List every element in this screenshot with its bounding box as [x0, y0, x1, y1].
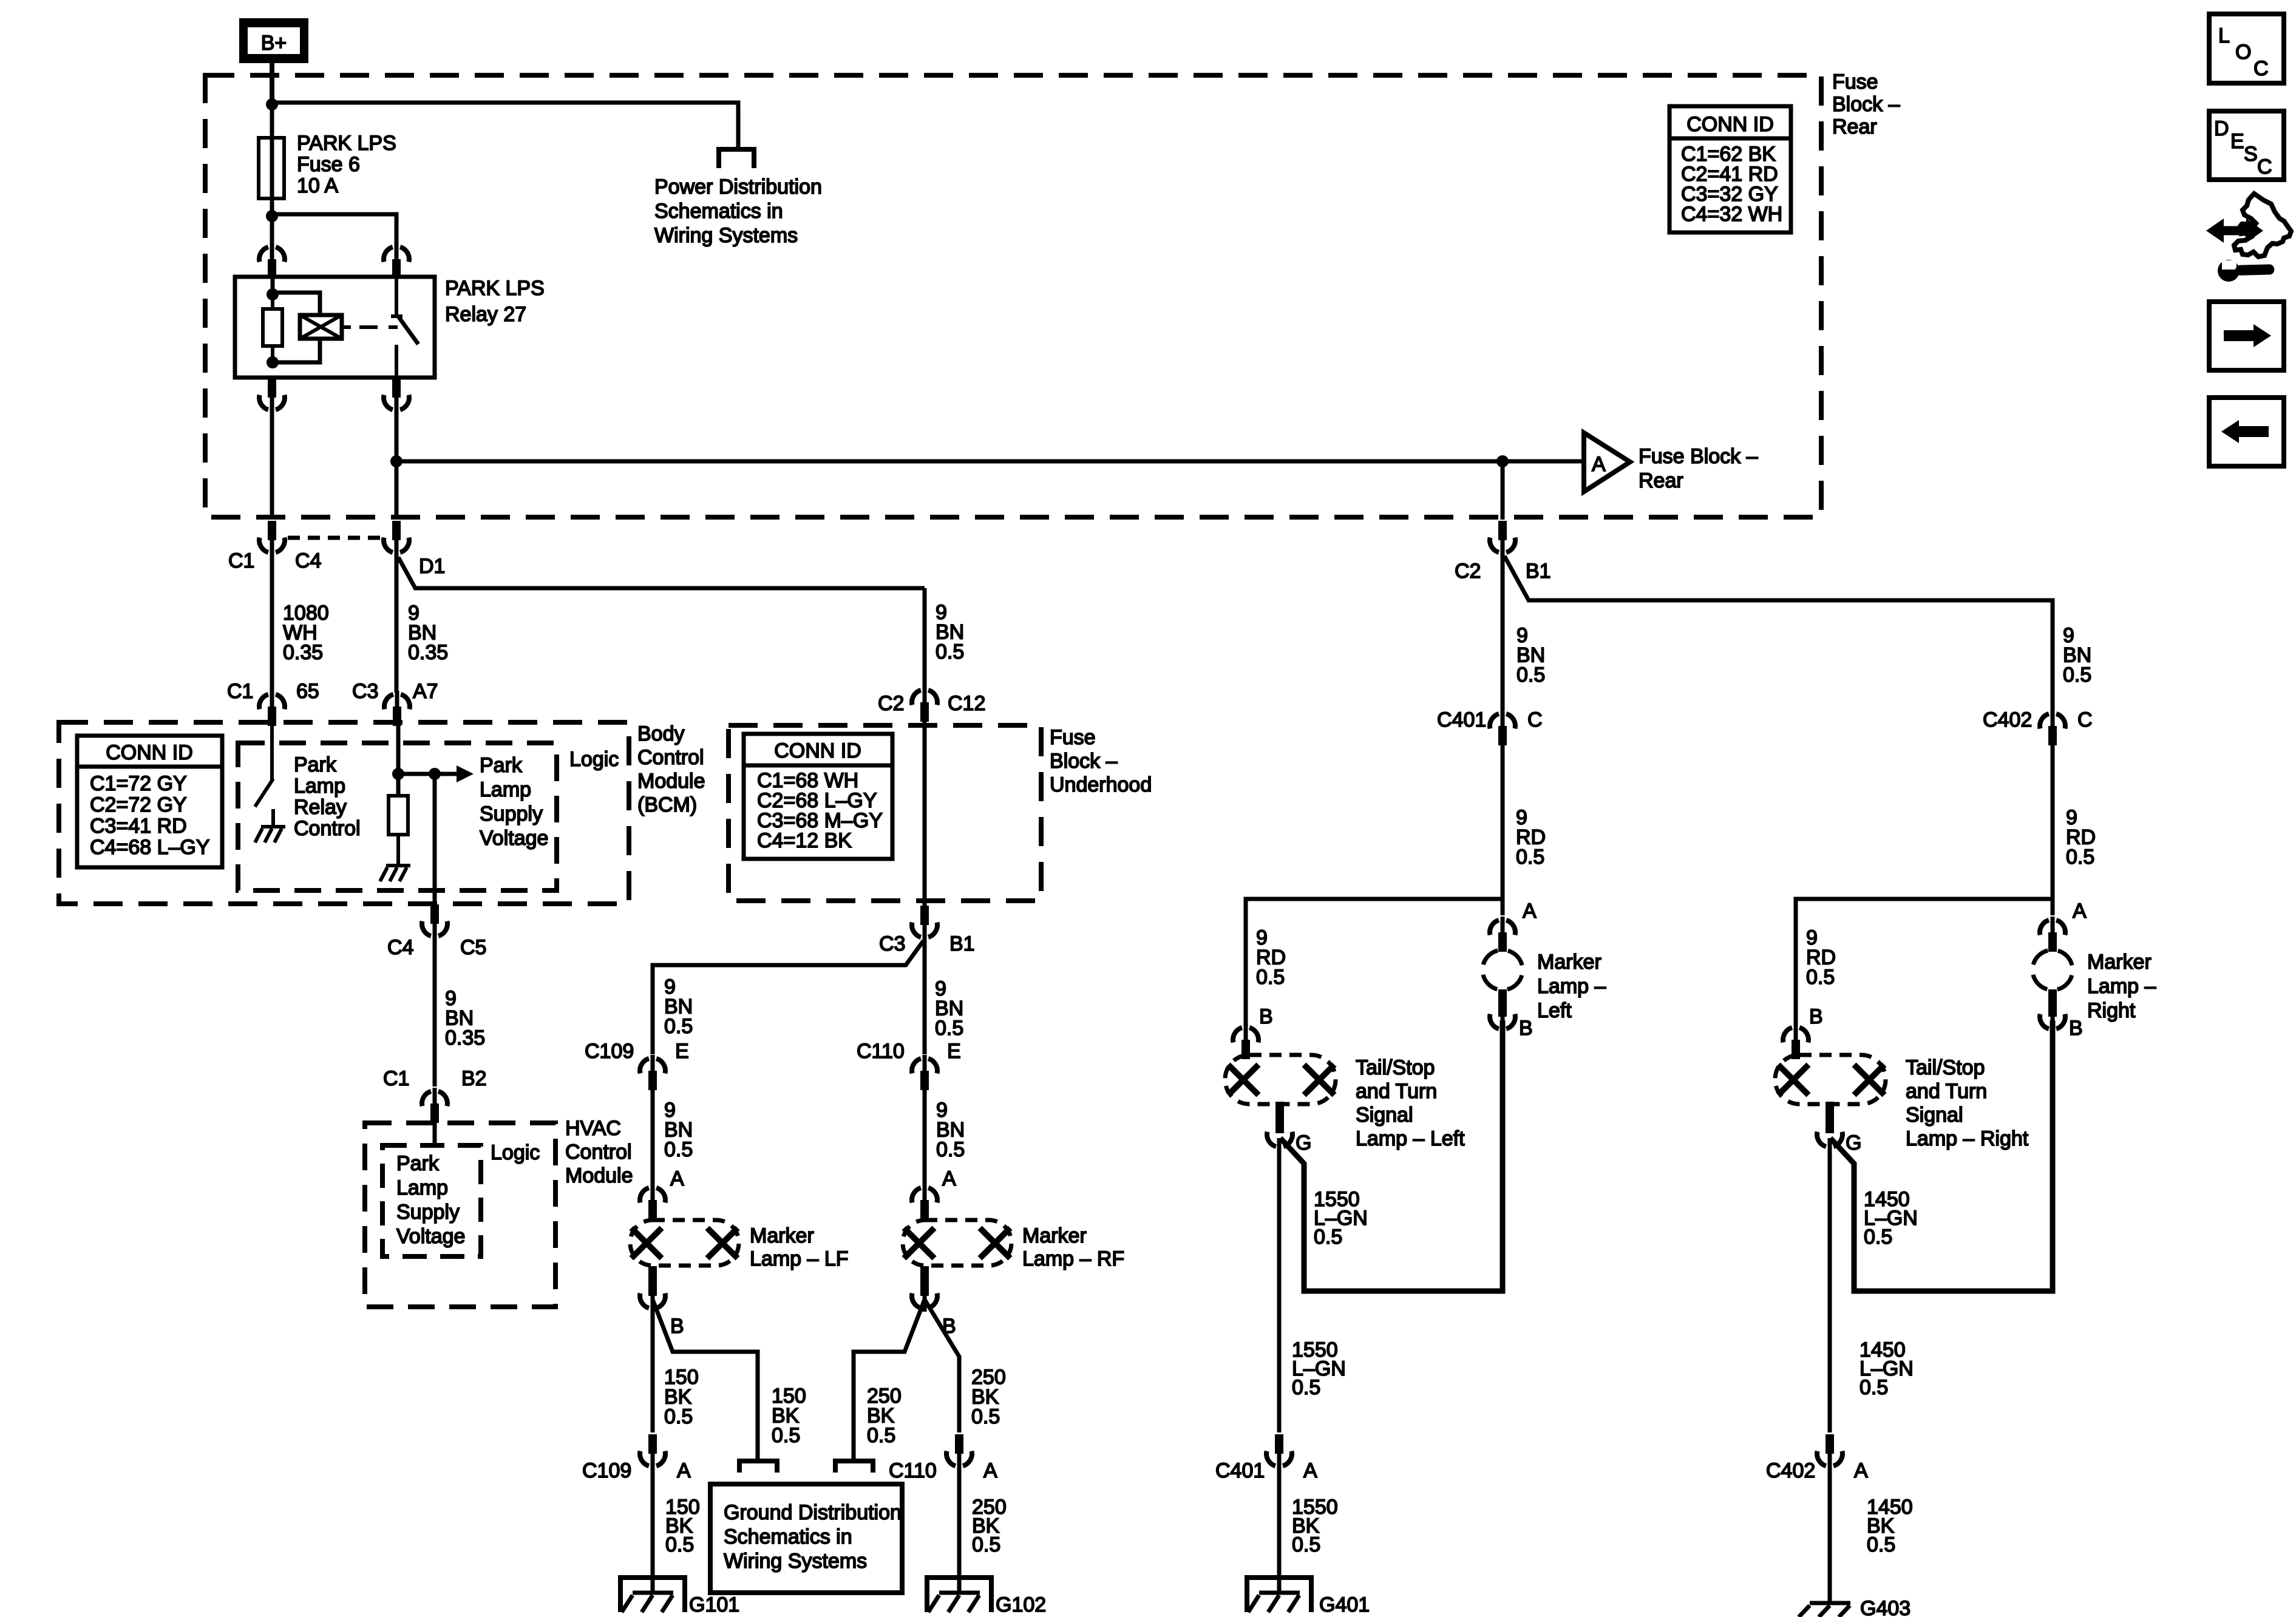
connector marker lamp RF terminal B [912, 1266, 956, 1338]
wire to supply voltage arrow [398, 772, 458, 776]
svg-text:L: L [2218, 24, 2230, 47]
relay switch contact upper [391, 279, 402, 316]
svg-text:C12: C12 [948, 692, 985, 715]
connector C2/B1 [1455, 521, 1551, 583]
fuse block rear CONN ID box [1669, 106, 1791, 232]
svg-text:B: B [670, 1315, 684, 1338]
svg-text:Control: Control [637, 746, 704, 769]
svg-text:0.5: 0.5 [1517, 663, 1545, 686]
icon LOC [2209, 14, 2284, 83]
svg-text:0.5: 0.5 [867, 1424, 895, 1447]
svg-text:Fuse: Fuse [1832, 70, 1878, 93]
node relay coil top [267, 288, 279, 300]
svg-text:Left: Left [1537, 999, 1572, 1022]
svg-text:C3=41 RD: C3=41 RD [90, 815, 187, 838]
svg-text:0.35: 0.35 [408, 641, 448, 664]
svg-text:Logic: Logic [491, 1141, 540, 1164]
wire 9 RD 0.5 from C402 [2053, 728, 2096, 915]
body control module dashed box [59, 722, 629, 904]
ground G101 [620, 1578, 739, 1616]
svg-text:Tail/Stop: Tail/Stop [1906, 1056, 1985, 1079]
connector C401/A [1215, 1434, 1317, 1482]
connector C4/C5 [387, 904, 486, 959]
relay switch blade [398, 316, 418, 344]
fuse block underhood dashed box [729, 725, 1041, 901]
svg-text:0.5: 0.5 [1314, 1225, 1342, 1249]
svg-text:C2: C2 [1455, 560, 1481, 583]
svg-text:C4=32 WH: C4=32 WH [1681, 203, 1782, 226]
wire marker rear ground loop [1280, 1020, 1503, 1291]
wire 1450 BK 0.5 to ground [1830, 1457, 1913, 1601]
svg-text:C110: C110 [857, 1040, 905, 1063]
connector marker lamp terminal B rear [2040, 989, 2083, 1040]
svg-text:C110: C110 [889, 1459, 937, 1482]
svg-text:Voltage: Voltage [396, 1225, 465, 1248]
connector tail lamp terminal B [1783, 1005, 1823, 1059]
svg-text:Wiring Systems: Wiring Systems [724, 1550, 867, 1573]
wire relay to junction [395, 401, 399, 520]
wire D1 branch to underhood feed [398, 557, 925, 588]
svg-text:A: A [942, 1167, 956, 1190]
connector C402/C [1983, 708, 2093, 745]
connector stub to power distribution schematics [719, 149, 754, 168]
fuse block underhood label [1050, 726, 1152, 796]
svg-text:Relay 27: Relay 27 [445, 303, 526, 326]
svg-text:C402: C402 [1983, 708, 2032, 731]
wire label 250 BK 0.5 right [971, 1366, 1006, 1428]
svg-text:0.5: 0.5 [1860, 1376, 1888, 1399]
svg-text:0.35: 0.35 [445, 1026, 485, 1049]
connector D1 [384, 521, 445, 578]
svg-text:S: S [2244, 143, 2258, 166]
svg-text:0.5: 0.5 [2063, 663, 2091, 686]
svg-text:G: G [1846, 1131, 1861, 1154]
relay 27 PARK LPS box [235, 277, 435, 378]
wire label 150 BK 0.5 left [664, 1366, 699, 1428]
svg-text:Lamp – Right: Lamp – Right [1906, 1127, 2029, 1150]
svg-text:0.5: 0.5 [971, 1405, 1000, 1428]
wire 1550 BK 0.5 to ground [1279, 1457, 1338, 1591]
park lamp relay control label [294, 753, 361, 840]
svg-text:(BCM): (BCM) [637, 793, 697, 816]
connector C110/E [857, 1040, 961, 1090]
power distribution note [654, 175, 822, 247]
fuse block rear dashed box [205, 75, 1821, 517]
connector marker lamp terminal A rear [2040, 900, 2087, 952]
svg-text:C1: C1 [383, 1067, 409, 1090]
svg-text:C4: C4 [295, 549, 321, 572]
svg-text:and Turn: and Turn [1906, 1080, 1987, 1103]
wire into HVAC logic [433, 1123, 437, 1148]
svg-text:Lamp –: Lamp – [2087, 975, 2156, 998]
svg-text:E: E [675, 1040, 689, 1063]
connector tail lamp terminal B [1233, 1005, 1273, 1059]
svg-text:B: B [1259, 1005, 1273, 1028]
svg-text:0.5: 0.5 [664, 1138, 693, 1161]
park lamp supply voltage arrow [457, 765, 474, 782]
fuse 6 PARK LPS 10A [259, 138, 284, 214]
wire 1080 WH 0.35 [272, 544, 329, 693]
svg-text:Wiring Systems: Wiring Systems [654, 224, 798, 247]
dashed link C4 to D1 [288, 536, 381, 540]
wire switched feed to fuse block rear terminal A [396, 459, 1503, 464]
relay 27 label [445, 277, 545, 326]
svg-text:C4=12 BK: C4=12 BK [757, 829, 852, 852]
wire tail lamp ground down [1279, 1138, 1346, 1432]
fuse 6 label [297, 132, 396, 197]
bracket to ground distribution left [739, 1461, 777, 1473]
svg-text:B: B [2069, 1017, 2083, 1040]
icon next arrow [2209, 302, 2284, 370]
tail/stop lamp label [1356, 1056, 1465, 1150]
wire C3/B1 split to C109 [653, 941, 923, 1054]
svg-text:Park: Park [294, 753, 337, 776]
ground distribution box [710, 1484, 902, 1593]
wire label 1450 L-GN 0.5 upper [1864, 1188, 1918, 1249]
svg-text:CONN ID: CONN ID [1686, 113, 1774, 136]
svg-text:G401: G401 [1319, 1593, 1370, 1616]
svg-text:Signal: Signal [1356, 1103, 1413, 1127]
svg-text:C5: C5 [460, 936, 486, 959]
tail/stop and turn signal lamp housing [1775, 1055, 1886, 1104]
svg-text:Power Distribution: Power Distribution [654, 175, 822, 198]
svg-text:C1: C1 [228, 549, 254, 572]
off-page reference label [1639, 445, 1758, 492]
svg-text:Signal: Signal [1906, 1103, 1963, 1127]
connector marker lamp terminal B rear [1490, 989, 1533, 1040]
svg-text:A: A [983, 1459, 997, 1482]
ground G403 [1799, 1597, 1911, 1617]
svg-text:A: A [670, 1167, 684, 1190]
svg-text:Fuse Block –: Fuse Block – [1639, 445, 1758, 468]
marker lamp RF label [1022, 1224, 1124, 1270]
ground G102 [927, 1578, 1046, 1616]
park lamp relay control switch [255, 726, 273, 807]
wire label 250 BK 0.5 branch [867, 1385, 902, 1447]
svg-text:C401: C401 [1215, 1459, 1265, 1482]
node at terminal A drop [1496, 455, 1509, 467]
svg-text:B: B [1519, 1017, 1533, 1040]
svg-text:G403: G403 [1860, 1597, 1911, 1617]
svg-text:B+: B+ [261, 32, 287, 55]
svg-text:C401: C401 [1437, 708, 1486, 731]
wire 150 BK 0.5 to ground [653, 1457, 700, 1591]
node switched feed junction [390, 455, 402, 467]
svg-text:CONN ID: CONN ID [774, 739, 861, 762]
connector C110/A [889, 1434, 997, 1482]
svg-text:Fuse 6: Fuse 6 [297, 153, 360, 176]
marker lamp LF housing [630, 1220, 739, 1266]
svg-text:G101: G101 [689, 1593, 739, 1616]
park lamp supply voltage label [480, 754, 548, 850]
svg-text:C402: C402 [1766, 1459, 1815, 1482]
svg-text:PARK LPS: PARK LPS [445, 277, 545, 300]
connector C3/A7 into BCM [352, 680, 438, 726]
svg-text:HVAC: HVAC [565, 1117, 621, 1140]
svg-text:0.5: 0.5 [972, 1533, 1000, 1556]
svg-text:A: A [677, 1459, 691, 1482]
svg-text:CONN ID: CONN ID [106, 741, 193, 764]
connector C402/A [1766, 1434, 1868, 1482]
icon back arrow [2209, 398, 2284, 466]
BCM CONN ID box [77, 736, 222, 867]
wire label 1550 L-GN 0.5 upper [1314, 1188, 1368, 1249]
wire relay coil top [273, 279, 320, 315]
tail/stop lamp bulbs [1228, 1065, 1334, 1095]
svg-text:Control: Control [294, 817, 361, 840]
BCM resistor ground [380, 835, 410, 881]
svg-text:Right: Right [2087, 999, 2136, 1022]
wire branch to tail lamp [1796, 899, 2053, 1025]
svg-text:0.5: 0.5 [665, 1533, 694, 1556]
svg-text:E: E [2230, 130, 2244, 153]
connector C401/C [1437, 708, 1543, 745]
node BCM supply voltage tap [392, 768, 404, 780]
connector marker lamp LF terminal B [640, 1266, 684, 1338]
svg-text:Lamp: Lamp [396, 1176, 448, 1199]
connector C1/65 into BCM [227, 680, 319, 726]
marker lamp rear label [1537, 951, 1606, 1022]
svg-text:C3: C3 [352, 680, 378, 703]
wire 9 BN 0.5 C110 to lamp [925, 1074, 965, 1184]
wire D1 down 9 BN 0.35 [396, 544, 448, 693]
svg-text:0.5: 0.5 [1864, 1225, 1892, 1249]
connector C2/C12 into fuse block underhood [878, 686, 985, 722]
wire fuse to relay switch feed [272, 214, 396, 246]
fuse block rear title [1832, 70, 1900, 138]
wire 9 BN 0.5 to C401 [1503, 544, 1545, 712]
connector marker lamp RF terminal A [912, 1167, 956, 1219]
svg-text:C: C [2077, 708, 2093, 731]
wire terminal drop to C2 connector [1501, 461, 1505, 520]
svg-text:C2=72 GY: C2=72 GY [90, 793, 187, 816]
wire label 9 BN 0.5 right [2063, 624, 2091, 686]
svg-text:Ground Distribution: Ground Distribution [724, 1501, 902, 1524]
svg-text:0.5: 0.5 [1867, 1533, 1895, 1556]
svg-text:Rear: Rear [1639, 469, 1683, 492]
svg-text:Fuse: Fuse [1050, 726, 1096, 749]
connector C1/C4 [228, 521, 321, 572]
marker lamp rear dashed bulb [1483, 950, 1523, 990]
tail/stop lamp label [1906, 1056, 2029, 1150]
wire BCM resistor feed [396, 726, 401, 796]
svg-text:Module: Module [637, 770, 705, 793]
HVAC control module dashed box [365, 1123, 555, 1307]
marker lamp rear dashed bulb [2033, 950, 2073, 990]
svg-text:Rear: Rear [1832, 115, 1877, 138]
svg-text:0.5: 0.5 [772, 1424, 800, 1447]
relay internal resistor [263, 300, 282, 358]
svg-text:0.35: 0.35 [283, 641, 323, 664]
svg-text:Block –: Block – [1050, 750, 1118, 773]
svg-text:C4: C4 [387, 936, 413, 959]
svg-text:0.5: 0.5 [664, 1405, 693, 1428]
node below fuse 6 [266, 210, 278, 222]
wire relay to C1 connector [270, 401, 274, 520]
svg-text:Supply: Supply [396, 1201, 460, 1224]
svg-text:0.5: 0.5 [1256, 966, 1285, 989]
relay coil winding symbol [300, 315, 351, 339]
HVAC logic dashed box [382, 1145, 481, 1256]
connector C1/B2 into HVAC [383, 1067, 487, 1123]
svg-text:B: B [1809, 1005, 1823, 1028]
wire B+ junction to fuse 6 [270, 104, 274, 140]
svg-text:0.5: 0.5 [2066, 846, 2094, 869]
svg-text:Lamp – LF: Lamp – LF [750, 1247, 849, 1270]
HVAC logic label [491, 1141, 540, 1164]
svg-text:A: A [1854, 1459, 1868, 1482]
svg-text:Lamp: Lamp [294, 775, 345, 798]
svg-text:D1: D1 [419, 555, 445, 578]
wire junction to off-page triangle [1503, 459, 1581, 464]
svg-text:0.5: 0.5 [1806, 966, 1835, 989]
svg-text:Park: Park [396, 1152, 440, 1175]
bracket to ground distribution right [835, 1461, 873, 1473]
svg-text:0.5: 0.5 [1292, 1533, 1320, 1556]
svg-text:PARK LPS: PARK LPS [297, 132, 396, 155]
BCM logic dashed box [238, 743, 557, 890]
node relay coil bottom [267, 356, 279, 368]
wire 250 BK 0.5 to ground [959, 1457, 1007, 1591]
off-page reference A fuse block rear [1584, 433, 1630, 492]
connector marker lamp terminal A rear [1490, 900, 1537, 952]
wire marker rear ground loop [1830, 1020, 2053, 1291]
wire 9 BN 0.5 C109 to lamp [653, 1074, 693, 1184]
svg-text:Voltage: Voltage [480, 827, 548, 850]
svg-text:0.5: 0.5 [664, 1015, 693, 1038]
icon DESC [2209, 111, 2284, 180]
svg-text:Supply: Supply [480, 802, 543, 825]
wire fuse to relay coil feed [270, 216, 274, 246]
wire marker LF ground branch [653, 1300, 758, 1459]
svg-text:Lamp –: Lamp – [1537, 975, 1606, 998]
power symbol B+ [239, 18, 308, 63]
wire through fuse block underhood [923, 722, 927, 906]
wire 9 RD 0.5 from C401 [1503, 728, 1546, 915]
svg-text:Lamp: Lamp [480, 778, 531, 801]
wire to power distribution [272, 103, 738, 149]
svg-text:C: C [2257, 155, 2272, 178]
svg-text:A: A [2073, 900, 2087, 923]
connector relay pin bottom-right [384, 378, 409, 413]
svg-text:Body: Body [637, 722, 685, 745]
connector marker lamp LF terminal A [640, 1167, 684, 1219]
svg-text:0.5: 0.5 [935, 1017, 963, 1040]
svg-text:G102: G102 [996, 1593, 1046, 1616]
marker lamp LF label [750, 1224, 849, 1270]
node BCM supply branch [429, 768, 441, 780]
svg-text:Control: Control [565, 1141, 632, 1164]
tail/stop and turn signal lamp housing [1225, 1055, 1336, 1104]
svg-text:C3: C3 [879, 932, 905, 955]
svg-text:Module: Module [565, 1164, 633, 1187]
svg-text:Park: Park [480, 754, 523, 777]
svg-text:A: A [1523, 900, 1537, 923]
svg-text:Lamp – Left: Lamp – Left [1356, 1127, 1465, 1150]
wire marker RF ground branch [854, 1300, 925, 1459]
wire 9 BN 0.35 to HVAC [435, 927, 485, 1086]
connector C109/A [582, 1434, 691, 1482]
svg-text:B1: B1 [1526, 560, 1551, 583]
wire relay coil bottom [273, 339, 320, 362]
svg-text:C4=68 L–GY: C4=68 L–GY [90, 836, 210, 859]
ground G401 [1247, 1578, 1370, 1616]
marker lamp LF bulbs [631, 1228, 738, 1258]
svg-text:Marker: Marker [750, 1224, 814, 1247]
svg-text:0.5: 0.5 [936, 640, 964, 663]
svg-text:Block –: Block – [1832, 93, 1900, 116]
svg-text:10 A: 10 A [297, 174, 338, 197]
relay linkage dashed [359, 325, 398, 329]
wire 9 BN 0.5 into fuse block underhood [925, 588, 964, 690]
marker lamp rear label [2087, 951, 2156, 1022]
svg-text:Marker: Marker [1537, 951, 1601, 974]
svg-text:C1=72 GY: C1=72 GY [90, 772, 187, 795]
BCM pull-down resistor [389, 796, 408, 835]
wire B+ stub into fuse block [270, 62, 274, 102]
svg-text:Tail/Stop: Tail/Stop [1356, 1056, 1435, 1079]
connector relay pin 30 top-left [259, 243, 285, 279]
svg-text:C109: C109 [585, 1040, 634, 1063]
svg-text:Logic: Logic [569, 748, 619, 771]
icon adjust (hand with wrench) [2206, 194, 2291, 282]
svg-text:Lamp – RF: Lamp – RF [1022, 1247, 1124, 1270]
svg-text:Schematics in: Schematics in [654, 200, 783, 223]
svg-text:0.5: 0.5 [1292, 1376, 1320, 1399]
svg-text:Marker: Marker [1022, 1224, 1087, 1247]
marker lamp RF bulbs [904, 1228, 1010, 1258]
svg-text:and Turn: and Turn [1356, 1080, 1437, 1103]
wire tail lamp ground down [1830, 1138, 1914, 1432]
svg-text:0.5: 0.5 [1516, 846, 1544, 869]
node B+ junction [266, 98, 278, 110]
relay switch contact lower [395, 345, 398, 376]
svg-text:A7: A7 [413, 680, 438, 703]
connector relay pin top-right [384, 243, 409, 279]
wire BCM supply output [433, 774, 437, 904]
park lamp relay control ground [255, 809, 285, 842]
HVAC park lamp supply voltage label [396, 1152, 465, 1248]
svg-text:C109: C109 [582, 1459, 631, 1482]
svg-text:O: O [2235, 41, 2251, 64]
svg-text:E: E [947, 1040, 961, 1063]
svg-text:A: A [1303, 1459, 1317, 1482]
svg-text:Relay: Relay [294, 796, 347, 819]
svg-text:B2: B2 [461, 1067, 487, 1090]
connector C109/E [585, 1040, 689, 1090]
connector C3/B1 out of fuse block underhood [879, 906, 975, 955]
connector tail lamp terminal G [1267, 1102, 1311, 1154]
wire B1 branch to right body harness [1504, 556, 2053, 712]
wire C3/B1 down to C110 [925, 929, 963, 1054]
connector tail lamp terminal G [1817, 1102, 1861, 1154]
wire marker LF ground straight [651, 1300, 655, 1432]
svg-text:C1: C1 [227, 680, 253, 703]
svg-text:Schematics in: Schematics in [724, 1525, 852, 1548]
svg-text:65: 65 [296, 680, 319, 703]
svg-text:0.5: 0.5 [936, 1138, 965, 1161]
svg-text:D: D [2214, 117, 2229, 140]
wire marker RF ground to C110 A [925, 1300, 959, 1432]
svg-text:C2: C2 [878, 692, 904, 715]
BCM label [637, 722, 705, 816]
svg-text:G: G [1296, 1131, 1311, 1154]
marker lamp RF housing [903, 1220, 1011, 1266]
BCM logic label [569, 748, 619, 771]
connector relay pin bottom-left [259, 378, 285, 413]
wire label 150 BK 0.5 branch [772, 1385, 806, 1447]
wire branch to tail lamp [1246, 899, 1503, 1025]
